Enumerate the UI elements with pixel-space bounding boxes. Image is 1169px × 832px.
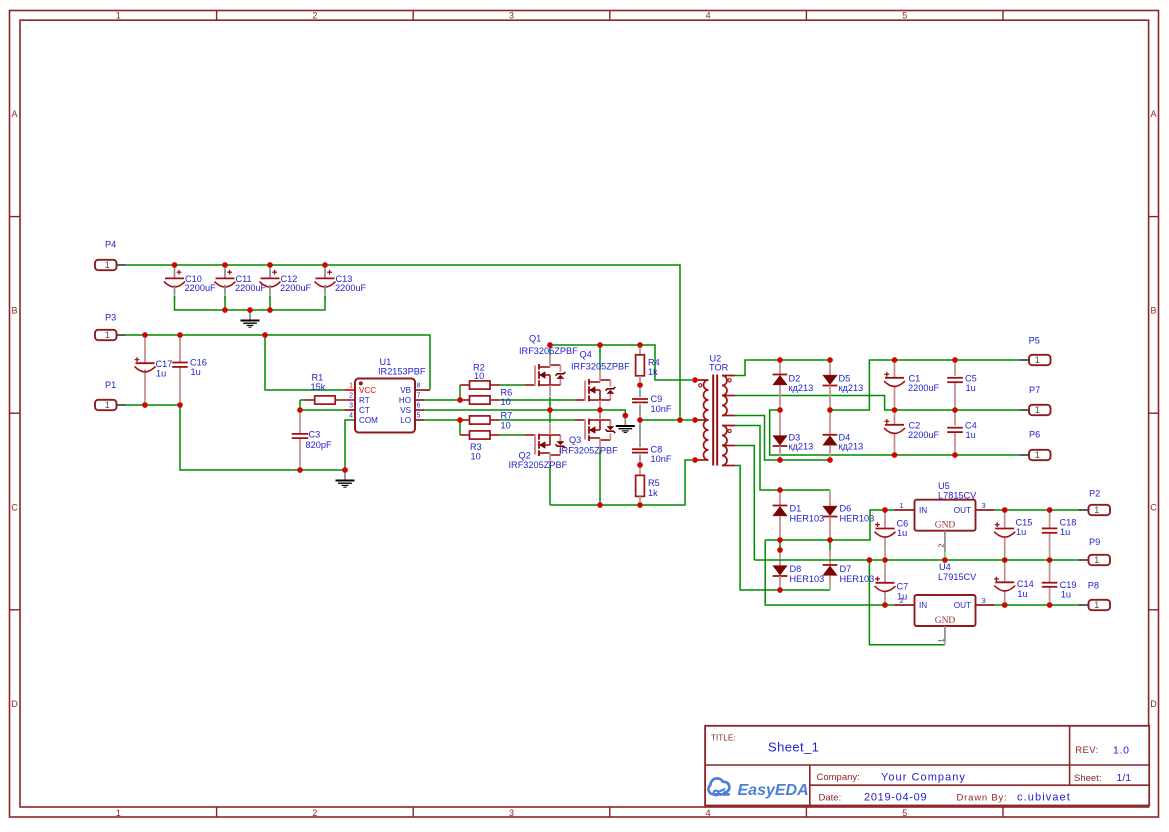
- wire bridge top rail: [550, 345, 692, 380]
- wire AC2 segment: [735, 416, 830, 461]
- junction dot D8 anode: [777, 547, 783, 553]
- wire P3 row to VB riser: [126, 335, 431, 389]
- junction dot aux negative row: [777, 587, 783, 593]
- svg-text:TOR: TOR: [709, 363, 729, 373]
- capacitor C12 2200uF: [260, 265, 312, 299]
- EasyEDA logo: [708, 778, 808, 799]
- wire LO net: [425, 420, 460, 435]
- junction dots top rail: [547, 342, 643, 348]
- svg-text:P5: P5: [1029, 336, 1040, 346]
- transistor Q2 IRF3205ZPBF: [509, 413, 568, 505]
- capacitor C14 1u: [994, 560, 1034, 605]
- svg-text:L7815CV: L7815CV: [938, 491, 977, 501]
- wire COM to ground rail: [345, 420, 355, 470]
- junction dots P6 row: [892, 452, 958, 458]
- diode D5 KD213: [823, 360, 864, 410]
- svg-text:HER103: HER103: [790, 574, 825, 584]
- svg-text:1: 1: [116, 808, 121, 818]
- junction dots gnd row: [867, 557, 1053, 563]
- wire U5 OUT row: [995, 509, 1081, 511]
- svg-text:3: 3: [509, 10, 514, 20]
- svg-text:1/1: 1/1: [1117, 772, 1132, 784]
- capacitor C6 1u: [875, 510, 909, 560]
- svg-text:1u: 1u: [897, 528, 907, 538]
- wire centre tap to P7 row: [735, 396, 1020, 411]
- svg-text:1k: 1k: [648, 367, 658, 377]
- svg-text:1u: 1u: [1016, 527, 1026, 537]
- wire cap bank bottom bus: [175, 296, 326, 310]
- svg-text:C18: C18: [1060, 517, 1077, 527]
- junction dots +15 row: [1002, 507, 1052, 513]
- svg-text:2200uF: 2200uF: [908, 383, 940, 393]
- junction dots P7 row: [892, 407, 958, 413]
- svg-text:CT: CT: [359, 406, 370, 415]
- junction dot CT node: [297, 407, 303, 413]
- wire ground return rail: [180, 405, 345, 470]
- junction dots P1 row: [142, 402, 183, 408]
- svg-text:P6: P6: [1029, 430, 1040, 440]
- wire RT-CT node: [300, 400, 345, 410]
- svg-text:1: 1: [899, 501, 903, 510]
- junction dot C8-R5: [637, 462, 643, 468]
- diode D7 HER103: [823, 540, 875, 590]
- wire negative rail to P6: [770, 410, 1020, 455]
- junction dots -15 row: [1002, 602, 1052, 608]
- svg-text:C14: C14: [1017, 579, 1034, 589]
- capacitor C3 820pF: [292, 410, 332, 470]
- svg-text:1u: 1u: [1061, 590, 1071, 600]
- svg-text:4: 4: [706, 808, 711, 818]
- svg-text:R7: R7: [501, 411, 513, 421]
- svg-text:HO: HO: [399, 396, 411, 405]
- svg-text:1k: 1k: [648, 488, 658, 498]
- junction dot R4-C9: [637, 382, 643, 388]
- svg-text:C9: C9: [651, 394, 663, 404]
- svg-text:2200uF: 2200uF: [908, 430, 940, 440]
- svg-text:кд213: кд213: [789, 442, 814, 452]
- svg-text:1: 1: [105, 400, 110, 410]
- wire W3 bottom to gnd row: [735, 446, 754, 561]
- junction dots bottom rail: [597, 502, 643, 508]
- svg-text:2: 2: [899, 596, 903, 605]
- svg-text:4: 4: [706, 10, 711, 20]
- resistor R1 15k: [300, 373, 355, 405]
- svg-text:U5: U5: [938, 481, 950, 491]
- svg-text:2: 2: [312, 808, 317, 818]
- svg-text:1u: 1u: [966, 383, 976, 393]
- capacitor C13 2200uF: [315, 265, 367, 299]
- resistor R6 10: [460, 387, 575, 407]
- svg-text:3: 3: [349, 403, 353, 410]
- junction dots P3 row: [142, 332, 268, 338]
- svg-text:10nF: 10nF: [651, 454, 672, 464]
- svg-text:REV:: REV:: [1075, 745, 1098, 756]
- svg-text:P4: P4: [105, 240, 116, 250]
- regulator U5 L7815CV: [894, 481, 994, 557]
- svg-text:HER103: HER103: [840, 513, 875, 523]
- svg-text:3: 3: [982, 501, 986, 510]
- svg-text:IN: IN: [919, 601, 927, 610]
- transistor Q4 IRF3205ZPBF: [571, 345, 630, 422]
- svg-text:A: A: [11, 109, 17, 119]
- capacitor C15 1u: [994, 510, 1032, 560]
- svg-text:P9: P9: [1089, 537, 1100, 547]
- svg-text:2200uF: 2200uF: [185, 283, 217, 293]
- svg-text:P3: P3: [105, 313, 116, 323]
- resistor R5 1k: [636, 465, 660, 505]
- svg-text:1: 1: [1035, 450, 1040, 460]
- svg-text:R5: R5: [648, 478, 660, 488]
- wire U4 OUT row: [995, 604, 1081, 606]
- wire W4 bottom to aux low row: [735, 466, 830, 591]
- svg-text:LO: LO: [400, 416, 411, 425]
- svg-text:Company:: Company:: [817, 772, 860, 783]
- svg-text:C2: C2: [909, 420, 921, 430]
- svg-text:P8: P8: [1088, 581, 1099, 591]
- diode D2 KD213: [773, 360, 814, 410]
- connector P8: [1079, 581, 1110, 611]
- svg-text:5: 5: [902, 808, 907, 818]
- wire AC1 top segment: [735, 360, 830, 376]
- svg-text:4: 4: [349, 413, 353, 420]
- svg-text:c.ubivaet: c.ubivaet: [1017, 792, 1071, 804]
- wire HO net: [425, 385, 460, 400]
- svg-text:7: 7: [417, 393, 421, 400]
- svg-text:Q4: Q4: [580, 349, 592, 359]
- svg-text:1: 1: [1094, 600, 1099, 610]
- svg-text:OUT: OUT: [954, 601, 971, 610]
- connector P7: [1020, 385, 1051, 415]
- capacitor C9 10nF: [632, 385, 672, 420]
- svg-text:R6: R6: [501, 387, 513, 397]
- svg-text:15k: 15k: [311, 382, 326, 392]
- connector P1: [95, 380, 126, 410]
- svg-text:2: 2: [936, 543, 945, 547]
- junction dots U5 U4 inputs: [882, 507, 888, 608]
- svg-text:C17: C17: [156, 359, 173, 369]
- svg-text:5: 5: [417, 413, 421, 420]
- svg-text:C5: C5: [965, 373, 977, 383]
- ground symbol cap bank: [241, 310, 260, 327]
- svg-text:P1: P1: [105, 380, 116, 390]
- svg-text:C7: C7: [897, 582, 909, 592]
- svg-text:кд213: кд213: [839, 442, 864, 452]
- svg-text:10: 10: [501, 420, 511, 430]
- resistor R7 10: [460, 411, 575, 431]
- svg-text:RT: RT: [359, 396, 370, 405]
- connector P9: [1079, 537, 1110, 565]
- wire P4 bus rail: [126, 265, 681, 417]
- svg-text:5: 5: [902, 10, 907, 20]
- wire gnd to U4 GND: [869, 560, 945, 645]
- capacitor C7 1u: [875, 560, 909, 605]
- capacitor C17 1u: [135, 335, 173, 405]
- connector P6: [1020, 430, 1051, 461]
- capacitor C10 2200uF: [164, 265, 216, 299]
- diode D6 HER103: [823, 490, 875, 540]
- transistor Q3 IRF3205ZPBF: [559, 409, 618, 506]
- capacitor C8 10nF: [632, 420, 672, 465]
- svg-text:1u: 1u: [1017, 589, 1027, 599]
- wire bridge bottom rail: [550, 460, 692, 505]
- capacitor C4 1u: [947, 410, 977, 455]
- wire W3 top to aux row: [735, 426, 830, 491]
- svg-text:1: 1: [105, 330, 110, 340]
- transistor Q1 IRF3205ZPBF: [519, 334, 578, 408]
- svg-text:Q3: Q3: [569, 435, 581, 445]
- junction dots aux positive: [777, 537, 833, 543]
- svg-text:P2: P2: [1089, 489, 1100, 499]
- svg-text:10: 10: [474, 371, 484, 381]
- svg-text:VCC: VCC: [359, 386, 376, 395]
- svg-text:C3: C3: [309, 430, 321, 440]
- svg-text:10: 10: [501, 397, 511, 407]
- wire P1 row: [126, 404, 181, 406]
- svg-text:кд213: кд213: [839, 383, 864, 393]
- svg-text:B: B: [11, 306, 17, 316]
- diode D4 KD213: [823, 410, 864, 460]
- op-amp U1 IR2153PBF: [345, 357, 431, 433]
- svg-text:VS: VS: [400, 406, 411, 415]
- ground symbol U1: [336, 470, 355, 487]
- svg-text:TITLE:: TITLE:: [711, 733, 736, 742]
- resistor R4 1k: [636, 345, 660, 385]
- svg-text:C4: C4: [965, 420, 977, 430]
- svg-text:C: C: [1150, 502, 1157, 512]
- svg-text:D: D: [11, 699, 18, 709]
- wire D1-D8 link: [779, 540, 781, 550]
- svg-text:1: 1: [349, 383, 353, 390]
- svg-text:OUT: OUT: [954, 506, 971, 515]
- svg-text:D8: D8: [790, 564, 802, 574]
- svg-text:2200uF: 2200uF: [335, 283, 367, 293]
- svg-text:10: 10: [471, 451, 481, 461]
- svg-text:GND: GND: [935, 616, 956, 626]
- junction dot HO node: [457, 397, 463, 403]
- wire VS net: [425, 410, 626, 416]
- wire aux to U4 IN: [765, 540, 894, 605]
- svg-text:1: 1: [105, 260, 110, 270]
- diode D8 HER103: [773, 550, 825, 590]
- svg-text:2: 2: [312, 10, 317, 20]
- svg-text:2019-04-09: 2019-04-09: [864, 792, 927, 804]
- svg-text:1u: 1u: [966, 430, 976, 440]
- svg-text:D7: D7: [840, 564, 852, 574]
- svg-text:B: B: [1150, 306, 1156, 316]
- svg-text:IRF3205ZPBF: IRF3205ZPBF: [559, 445, 618, 455]
- svg-text:Date:: Date:: [819, 792, 842, 803]
- svg-text:1: 1: [116, 10, 121, 20]
- capacitor C5 1u: [947, 360, 977, 410]
- capacitor C2 2200uF: [884, 410, 940, 455]
- junction dots ground rail: [297, 467, 348, 473]
- svg-text:L7915CV: L7915CV: [938, 572, 977, 582]
- svg-text:кд213: кд213: [789, 383, 814, 393]
- svg-text:IN: IN: [919, 506, 927, 515]
- svg-text:3: 3: [509, 808, 514, 818]
- junction dots bottom bus: [222, 307, 273, 313]
- svg-text:Sheet:: Sheet:: [1074, 773, 1101, 784]
- capacitor C18 1u: [1042, 510, 1077, 560]
- svg-text:2: 2: [349, 393, 353, 400]
- capacitor C19 1u: [1042, 560, 1077, 605]
- svg-text:R4: R4: [648, 357, 660, 367]
- svg-text:IR2153PBF: IR2153PBF: [378, 367, 426, 377]
- junction dot LO node: [457, 417, 463, 423]
- diode D1 HER103: [773, 490, 825, 540]
- svg-text:2200uF: 2200uF: [280, 283, 312, 293]
- junction dots P5 row: [892, 357, 958, 363]
- svg-text:1.0: 1.0: [1113, 744, 1130, 756]
- wire gnd mid row: [754, 559, 1081, 561]
- resistor R2 10: [460, 362, 525, 389]
- title block: [705, 726, 1149, 806]
- svg-text:Q1: Q1: [529, 334, 541, 344]
- svg-text:3: 3: [982, 596, 986, 605]
- svg-text:C8: C8: [651, 444, 663, 454]
- svg-text:Sheet_1: Sheet_1: [768, 740, 819, 755]
- svg-text:1u: 1u: [191, 367, 201, 377]
- svg-text:A: A: [1150, 109, 1156, 119]
- svg-text:C15: C15: [1016, 517, 1033, 527]
- junction dots primary pins: [692, 377, 698, 463]
- capacitor C16 1u: [172, 335, 207, 405]
- connector P3: [95, 313, 126, 341]
- connector P5: [1020, 336, 1051, 366]
- svg-text:EasyEDA: EasyEDA: [738, 782, 809, 799]
- svg-text:P7: P7: [1029, 385, 1040, 395]
- junction dots mid rectifier: [777, 407, 833, 413]
- capacitor C11 2200uF: [215, 265, 267, 299]
- transformer U2 TOR: [695, 353, 735, 465]
- svg-text:Drawn By:: Drawn By:: [957, 792, 1008, 803]
- wire primary centre row: [640, 419, 692, 421]
- junction dot aux top row: [777, 487, 783, 493]
- svg-text:1: 1: [1035, 355, 1040, 365]
- junction dots AC1: [777, 357, 833, 363]
- connector P2: [1079, 489, 1110, 516]
- resistor R3 10: [460, 431, 525, 462]
- junction dots VS net: [547, 407, 628, 418]
- ground symbol VS divider: [616, 416, 635, 433]
- svg-text:C16: C16: [190, 358, 207, 368]
- diode D3 KD213: [773, 410, 814, 460]
- svg-text:R3: R3: [470, 442, 482, 452]
- wire positive rail to P5: [830, 360, 1020, 410]
- wire VCC branch: [265, 335, 345, 390]
- svg-text:D6: D6: [840, 503, 852, 513]
- svg-text:1: 1: [936, 638, 945, 642]
- svg-text:IRF3205ZPBF: IRF3205ZPBF: [519, 346, 578, 356]
- svg-text:1: 1: [1035, 405, 1040, 415]
- junction dots AC2: [777, 457, 833, 463]
- svg-text:6: 6: [417, 403, 421, 410]
- junction dots centre row: [637, 417, 683, 423]
- svg-text:GND: GND: [935, 521, 956, 531]
- svg-text:COM: COM: [359, 416, 378, 425]
- junction dot overlay: [142, 262, 1052, 608]
- capacitor C1 2200uF: [884, 360, 940, 410]
- svg-text:Your Company: Your Company: [881, 771, 966, 783]
- svg-text:C1: C1: [909, 373, 921, 383]
- svg-text:D: D: [1150, 699, 1157, 709]
- regulator U4 L7915CV: [894, 562, 994, 645]
- junction dots on P4 rail: [172, 262, 328, 268]
- svg-text:HER103: HER103: [790, 513, 825, 523]
- svg-text:1: 1: [1094, 555, 1099, 565]
- connector P4: [95, 240, 126, 271]
- svg-text:1u: 1u: [1060, 527, 1070, 537]
- svg-text:IRF3205ZPBF: IRF3205ZPBF: [571, 362, 630, 372]
- svg-text:820pF: 820pF: [306, 440, 332, 450]
- svg-text:U1: U1: [380, 357, 392, 367]
- svg-text:C: C: [11, 502, 18, 512]
- svg-text:C6: C6: [897, 518, 909, 528]
- svg-text:IRF3205ZPBF: IRF3205ZPBF: [509, 460, 568, 470]
- svg-text:1: 1: [1094, 505, 1099, 515]
- svg-text:U4: U4: [939, 562, 951, 572]
- svg-text:VB: VB: [400, 386, 411, 395]
- svg-text:D1: D1: [790, 503, 802, 513]
- svg-text:10nF: 10nF: [651, 404, 672, 414]
- svg-text:C19: C19: [1060, 580, 1077, 590]
- svg-text:1u: 1u: [156, 368, 166, 378]
- svg-text:8: 8: [417, 383, 421, 390]
- wire aux positive row to U5 IN: [765, 510, 894, 540]
